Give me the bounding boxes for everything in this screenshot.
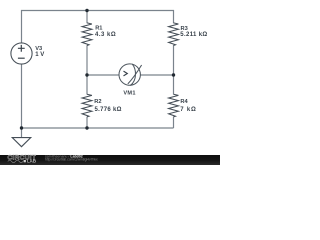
wire: top right run (R1 junction to top-right corner down to R3 top)	[87, 11, 174, 24]
wire: ground stub	[21, 128, 23, 138]
node: middle junction R1/R2/VM1	[85, 73, 88, 76]
svg-text:7 kΩ: 7 kΩ	[180, 107, 196, 113]
resistor R3	[169, 23, 179, 46]
voltmeter VM1	[119, 64, 142, 86]
svg-text:4.3 kΩ: 4.3 kΩ	[95, 32, 116, 38]
wire: middle left segment (to VM1)	[87, 74, 119, 76]
svg-text:http://circuitlab.com/czwm8gi4: http://circuitlab.com/czwm8gi4v7hkx	[45, 158, 98, 162]
node: bottom-left junction ground	[20, 126, 23, 129]
svg-text:VM1: VM1	[123, 91, 135, 97]
label R3 value	[180, 26, 207, 38]
wire: R1 top lead	[86, 11, 88, 24]
label R1 value	[95, 26, 116, 38]
wire: R4 top lead	[173, 75, 175, 95]
svg-text:R1: R1	[95, 26, 102, 32]
node: bottom junction R2	[85, 126, 88, 129]
node: top junction R1	[85, 9, 88, 12]
wire: bottom run	[22, 127, 174, 129]
ground	[12, 138, 30, 147]
wire: R2 top lead	[86, 75, 88, 95]
label R4 value	[180, 99, 196, 113]
svg-text:LAB: LAB	[27, 159, 36, 164]
resistor R2	[82, 94, 92, 117]
voltage source V3	[11, 43, 32, 64]
wire: R1 bottom lead to middle junction	[86, 45, 88, 75]
svg-text:5.211 kΩ: 5.211 kΩ	[180, 32, 207, 38]
wire: R3 bottom lead	[173, 45, 175, 75]
label R2 value	[94, 99, 121, 113]
wire: middle right segment (VM1 to right branch)	[140, 74, 173, 76]
resistor R1	[82, 23, 92, 46]
footer logo LAB square	[24, 160, 26, 162]
wire: R2 bottom lead	[86, 117, 88, 128]
wire: R4 bottom lead	[173, 117, 175, 128]
svg-text:R4: R4	[180, 99, 188, 105]
footer logo wave	[8, 160, 23, 162]
wire: left branch top run (V3 top to top-left corner to R1 junction)	[22, 11, 88, 44]
label V3 value	[35, 46, 44, 58]
wire: V3 bottom to bottom-left junction	[21, 64, 23, 128]
resistor R4	[169, 94, 179, 117]
svg-text:5.776 kΩ: 5.776 kΩ	[95, 107, 122, 113]
node: middle junction right VM1/R3/R4	[172, 73, 175, 76]
svg-text:1 V: 1 V	[35, 52, 44, 58]
svg-text:R2: R2	[94, 99, 101, 105]
